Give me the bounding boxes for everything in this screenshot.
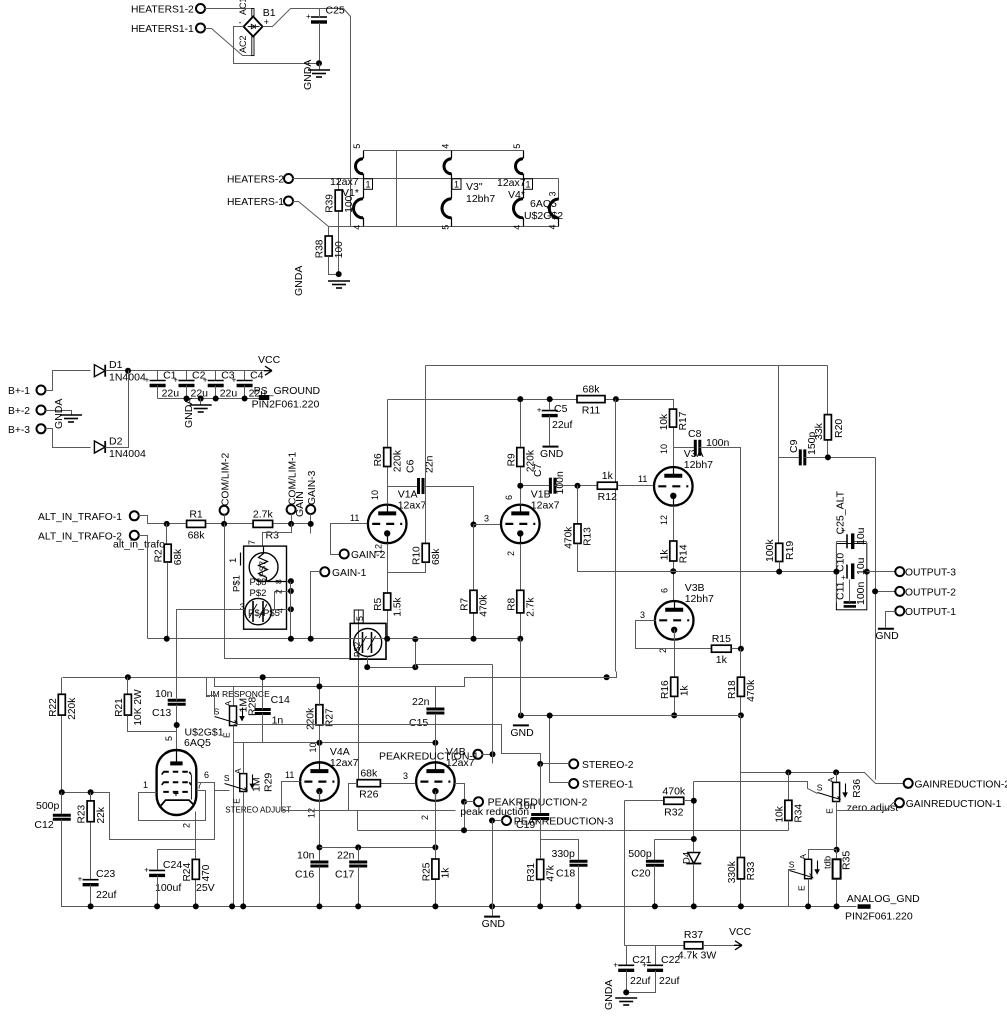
svg-text:22n: 22n (412, 696, 430, 708)
wire grid return line (234, 725, 541, 764)
wire C14 top (262, 678, 264, 710)
wire plate rail 742 (234, 742, 436, 744)
svg-text:E: E (232, 798, 242, 804)
label C13 10n (152, 688, 173, 719)
wire C7 to R12 (555, 485, 598, 487)
ground GNDA (heater resistors) (328, 281, 350, 288)
svg-text:R13: R13 (583, 527, 594, 546)
wire top feedback line (426, 365, 828, 367)
wire OUTPUT-1 to GND (886, 612, 896, 628)
heater filament 6AQ5 (548, 191, 559, 229)
junction R33 gnd (738, 903, 744, 909)
triode V4B 12ax7 (416, 746, 475, 801)
ground GND (output) (875, 629, 899, 643)
svg-text:6: 6 (660, 588, 670, 593)
svg-text:68k: 68k (188, 529, 206, 541)
pin label 2 V3B (658, 648, 668, 653)
junction R16 gnd rail (671, 712, 677, 718)
svg-text:ANALOG_GND: ANALOG_GND (847, 893, 920, 905)
label 12ax7 V4* (497, 177, 526, 201)
wire P2 stub (465, 801, 475, 803)
wire P1 stub (482, 754, 493, 756)
wire PS ground bus (158, 398, 260, 400)
svg-text:4: 4 (441, 144, 451, 149)
junction 6AQ5 plate node (174, 722, 180, 728)
svg-text:C15: C15 (409, 717, 428, 729)
wire C17 bottom (358, 867, 360, 907)
svg-text:C17: C17 (335, 869, 354, 881)
wire bridge plus to C25 top (263, 9, 351, 227)
resistor R15 (712, 633, 732, 666)
svg-text:AC1: AC1 (238, 0, 248, 15)
pin label 10 V1A (370, 490, 380, 500)
svg-text:alt_in_trafo: alt_in_trafo (113, 539, 165, 551)
wire V4A plate lead (319, 743, 321, 763)
svg-text:10u: 10u (855, 527, 867, 545)
pin label 2 6AQ5 (182, 823, 192, 828)
svg-text:C14: C14 (271, 694, 290, 706)
svg-text:C12: C12 (34, 819, 53, 831)
label C5 22uf (552, 403, 573, 431)
wire C13 bottom to 6AQ5 plate (176, 705, 178, 751)
pin label 12 V1A (374, 544, 384, 554)
wire 6AQ5 cathode (195, 812, 197, 860)
terminal GAINREDUCTION-2 (904, 779, 1007, 791)
resistor R14 (659, 541, 689, 602)
wire heater top rail (364, 150, 524, 152)
svg-text:12ax7: 12ax7 (398, 499, 427, 511)
svg-text:+: + (642, 960, 647, 969)
label 12ax7 V1* (330, 176, 359, 199)
wire input bus (139, 516, 311, 524)
svg-text:10: 10 (308, 742, 318, 752)
resistor R12 (597, 470, 617, 503)
resistor R9 (506, 400, 536, 505)
svg-text:+: + (841, 573, 846, 582)
resistor R20 (813, 415, 845, 458)
terminal B+-3 (8, 424, 46, 436)
wire STEREO-2 feed (541, 763, 570, 765)
wire C21 top (626, 946, 628, 966)
pin label 6 V3B (660, 588, 670, 593)
wire R32 right (684, 800, 694, 802)
resistor R21 (114, 678, 144, 726)
svg-text:10n: 10n (155, 688, 173, 700)
net label alt_in_trafo (113, 539, 165, 551)
wire C4 bottom lead (244, 386, 246, 399)
heater filament V4* (512, 144, 533, 230)
terminal HEATERS1-1 (131, 24, 205, 36)
svg-text:1k: 1k (716, 654, 728, 666)
svg-text:E: E (222, 732, 232, 738)
pin label 6 6AQ5 (204, 770, 209, 780)
wire COM/LIM-2 long line (225, 524, 493, 668)
terminal GAIN-2 (340, 550, 386, 562)
svg-text:68k: 68k (360, 768, 378, 780)
svg-text:10n: 10n (297, 849, 315, 861)
ground GND (C5) (540, 447, 564, 461)
terminal PEAKREDUCTION-3 (502, 816, 511, 825)
wire P3 column (492, 821, 494, 907)
junction R8 bottom (517, 636, 523, 642)
junction R2 top (164, 521, 170, 527)
junction C20 gnd (652, 903, 658, 909)
junction R27 bottom (316, 740, 322, 746)
wire mid gnd rail (521, 715, 741, 717)
svg-text:GND: GND (510, 727, 534, 739)
wire R15 to C8 net (732, 648, 741, 650)
wire VCC feed line (625, 945, 685, 947)
wire R28 E down to gnd (233, 726, 235, 907)
wire V1A plate tap (388, 486, 419, 488)
wire C20 top (654, 840, 656, 862)
wire C8 to V3B grid net (700, 448, 741, 649)
capacitor C9 (800, 449, 805, 465)
junction GAIN-3 (308, 521, 314, 527)
junction node D1-D2 (125, 368, 131, 374)
svg-text:500p: 500p (36, 800, 60, 812)
label GNDA (B+ input) (53, 399, 65, 429)
svg-text:C11: C11 (835, 581, 847, 600)
junction R27 top (316, 683, 322, 689)
junction R21 top (125, 674, 131, 680)
svg-text:+: + (306, 12, 311, 21)
ground GND (bottom mid) (482, 917, 506, 931)
capacitor C24 (144, 865, 165, 875)
ground GND (mid) (510, 725, 534, 739)
junction R24 gnd (193, 903, 199, 909)
wire B+-3 to D2 (46, 429, 91, 448)
junction mid gnd sym (489, 903, 495, 909)
capacitor C17 (349, 862, 367, 866)
junction opto2 rail (412, 664, 418, 670)
pin label 1 6AQ5 (143, 780, 148, 790)
capacitor C21 (613, 960, 634, 970)
svg-text:GAIN: GAIN (294, 491, 306, 517)
wire zero adjust net (694, 782, 818, 794)
wire feedback vertical (425, 366, 427, 544)
junction C5 rail (547, 396, 553, 402)
pin label 11 V1A (350, 513, 359, 523)
svg-text:PS7: PS7 (258, 561, 268, 577)
svg-text:GAIN-1: GAIN-1 (332, 568, 367, 579)
wire STEREO-1 feed (550, 716, 570, 783)
svg-text:PIN2F061.220: PIN2F061.220 (845, 910, 913, 922)
wire cathode link line (320, 847, 436, 849)
wire HEATERS1-2 to bridge AC1 (205, 8, 253, 10)
potentiometer R28 LIM RESPONCE (214, 700, 245, 738)
capacitor C23 (78, 875, 99, 885)
wire alt cap right (866, 542, 868, 603)
pin label 3 V3B (640, 610, 645, 620)
svg-text:2: 2 (182, 823, 192, 828)
pin label 12 V3A (659, 515, 669, 525)
wire cathode bottom rail (148, 638, 521, 640)
wire opto pin2 inner (274, 592, 276, 610)
label 6AQ5 U$2G$2 (524, 198, 563, 222)
capacitor C5 (537, 406, 558, 416)
wire R35 pot S (789, 870, 796, 907)
wire heater rail jumper (396, 151, 398, 227)
wire R29 top (243, 743, 245, 774)
wire C4 top lead (244, 371, 246, 381)
pin label 3 V4B (403, 771, 408, 781)
wire V3B cathode to R16 (674, 630, 676, 678)
svg-text:1: 1 (228, 558, 239, 563)
svg-text:4.7k 3W: 4.7k 3W (678, 950, 717, 962)
svg-text:100n: 100n (554, 471, 566, 495)
svg-text:R24: R24 (182, 863, 193, 882)
label C22 22uf (659, 954, 680, 987)
junction STEREO-2 node (537, 761, 543, 767)
svg-text:PS2: PS2 (353, 641, 362, 657)
resistor R23 (77, 793, 107, 880)
wire R27 top (319, 687, 321, 705)
label C7 100n (532, 463, 566, 494)
wire C1 bottom lead (157, 386, 159, 399)
junction R9 rail (517, 396, 523, 402)
svg-text:A: A (223, 700, 233, 706)
svg-text:22uf: 22uf (659, 975, 680, 987)
label pin2 (274, 589, 284, 594)
junction P1 (490, 751, 496, 757)
junction R35 pot gnd (805, 903, 811, 909)
svg-text:A: A (233, 768, 243, 774)
wire R13 bottom to output line (578, 544, 616, 572)
label C9 150p (788, 431, 818, 455)
svg-text:C13: C13 (152, 707, 171, 719)
wire R29 wiper (215, 790, 230, 792)
svg-text:10k: 10k (659, 413, 670, 430)
wire GNDA node to ground (319, 64, 321, 71)
svg-text:tdb: tdb (823, 856, 834, 869)
svg-text:E: E (825, 808, 835, 814)
net label zero adjust (847, 802, 898, 814)
svg-text:GNDA: GNDA (603, 980, 615, 1010)
svg-text:+: + (841, 526, 846, 535)
svg-text:R38: R38 (315, 239, 326, 258)
wire C3 bottom lead (215, 386, 217, 399)
capacitor C20 (646, 861, 664, 865)
svg-text:PEAKREDUCTION-1: PEAKREDUCTION-1 (379, 751, 479, 763)
resistor R34 (774, 773, 804, 823)
svg-text:GAIN-2: GAIN-2 (351, 550, 386, 561)
capacitor C6 (419, 478, 424, 494)
svg-text:PIN2F061.220: PIN2F061.220 (252, 399, 320, 411)
svg-text:P$2: P$2 (250, 588, 267, 599)
svg-text:AC2: AC2 (238, 35, 248, 53)
svg-text:+: + (537, 406, 542, 415)
wire ALT2 down (139, 536, 148, 639)
junction R35 node (834, 847, 840, 853)
pin label 12 V4A (307, 808, 317, 818)
terminal B+-1 (8, 386, 46, 398)
svg-text:2: 2 (506, 551, 516, 556)
terminal OUTPUT-2 (895, 587, 956, 599)
pin label 5 6AQ5 (164, 736, 174, 741)
junction pin4 (288, 606, 294, 612)
svg-text:HEATERS-2: HEATERS-2 (227, 175, 284, 186)
wire C14 bottom (262, 714, 264, 743)
junction B+ lower (604, 674, 610, 680)
svg-text:5: 5 (164, 736, 174, 741)
svg-text:150p: 150p (806, 431, 818, 455)
resistor R3 2.7k (253, 520, 273, 527)
wire opto2 tie to rail (415, 640, 417, 668)
junction output takeoff (670, 568, 676, 574)
wire rail to mid gnd (520, 639, 522, 716)
resistor R13 (564, 486, 594, 549)
svg-text:A: A (826, 777, 836, 783)
svg-text:22uf: 22uf (630, 975, 651, 987)
svg-text:470k: 470k (479, 594, 490, 617)
wire GAINREDUCTION-1 wire (837, 803, 896, 811)
junction C18 gnd (576, 903, 582, 909)
wire sidechain B+ feed (606, 677, 608, 679)
svg-text:B+-1: B+-1 (8, 386, 30, 397)
svg-text:12: 12 (307, 808, 317, 818)
svg-text:6: 6 (204, 770, 209, 780)
label PEAKREDUCTION-2 (488, 797, 588, 809)
label C3 (220, 370, 238, 400)
junction D4 gnd (691, 903, 697, 909)
junction pin8 (288, 578, 294, 584)
pin label 2 V1B (506, 551, 516, 556)
label C16 10n (295, 849, 315, 880)
label pin4 (276, 608, 286, 613)
svg-text:ALT_IN_TRAFO-2: ALT_IN_TRAFO-2 (38, 531, 122, 542)
svg-text:U$2G$2: U$2G$2 (524, 210, 563, 222)
diode D1 1N4004 (94, 359, 146, 384)
wire B+-1 to D1 (46, 371, 91, 391)
svg-text:R1: R1 (189, 508, 203, 520)
svg-text:C7: C7 (532, 463, 544, 477)
svg-text:C20: C20 (631, 868, 650, 880)
resistor R2 (154, 544, 184, 565)
capacitor C4 (232, 376, 253, 386)
svg-text:zero adjust: zero adjust (847, 802, 898, 814)
svg-text:C18: C18 (556, 868, 575, 880)
wire D1 to VCC rail (106, 370, 265, 372)
wire V4A grid loop (282, 782, 456, 811)
pin label 10 V3A (659, 444, 669, 454)
junction V1B grid (471, 522, 477, 528)
wire V4B right stub (455, 784, 465, 802)
label C12 500p (34, 800, 59, 831)
wire output HF feedback drop (875, 458, 877, 780)
resistor R35 (823, 850, 853, 907)
svg-text:100: 100 (334, 241, 345, 258)
wire R19 column (778, 366, 780, 544)
svg-text:E: E (797, 885, 807, 891)
svg-text:22u: 22u (162, 388, 180, 400)
svg-text:R2: R2 (154, 549, 165, 562)
wire 6AQ5 pin1-pin7 loop (139, 791, 206, 821)
resistor R38 (315, 227, 345, 259)
svg-text:100n: 100n (855, 581, 867, 605)
svg-text:R31: R31 (526, 863, 537, 882)
wire C24 bottom (157, 876, 159, 907)
capacitor C3 (203, 376, 224, 386)
svg-text:STEREO-2: STEREO-2 (582, 760, 634, 771)
junction STEREO-1 tap (547, 713, 553, 719)
wire R2 bottom (166, 524, 168, 545)
wire D2 to D1 junction (106, 371, 129, 448)
svg-text:3: 3 (548, 191, 558, 196)
net label peak reduction (460, 806, 529, 818)
wire C18 branch (541, 840, 579, 862)
junction R18 gnd rail (738, 712, 744, 718)
svg-text:3: 3 (640, 610, 645, 620)
svg-text:4: 4 (548, 224, 558, 229)
terminal GAIN-1 (320, 567, 366, 579)
svg-text:5: 5 (352, 144, 362, 149)
terminal STEREO-1 (569, 779, 634, 791)
label LIM RESPONCE (206, 689, 271, 699)
resistor R7 (460, 525, 490, 639)
wire feedback down right (827, 366, 829, 415)
svg-text:R29: R29 (263, 773, 275, 792)
label C17 22n (335, 849, 355, 880)
junction OUTPUT-2 tap (872, 588, 878, 594)
svg-text:OUTPUT-3: OUTPUT-3 (905, 568, 956, 579)
wire grid V1A from GAIN-2 (331, 524, 368, 555)
label PEAKREDUCTION-3 (514, 816, 614, 828)
junction C16 gnd (316, 903, 322, 909)
wire R3 tap to opto pin7 (263, 524, 292, 547)
svg-text:+: + (144, 865, 149, 874)
svg-text:C23: C23 (96, 868, 115, 880)
capacitor C22 (642, 960, 663, 970)
label R36 (852, 779, 863, 798)
wire C21 bottom (626, 971, 628, 993)
wire opto pin2 (275, 591, 291, 593)
svg-text:HEATERS1-2: HEATERS1-2 (131, 5, 194, 16)
svg-text:1.5k: 1.5k (392, 596, 403, 616)
junction R25 link (432, 844, 438, 850)
junction R31 gnd (537, 903, 543, 909)
svg-text:220k: 220k (392, 449, 403, 472)
junction pin2 (288, 588, 294, 594)
opto coupler P$1 box (244, 546, 287, 629)
terminal PEAKREDUCTION-2 (474, 797, 483, 806)
capacitor C25 (306, 12, 327, 22)
resistor R8 (506, 544, 536, 639)
svg-text:GNDA: GNDA (183, 398, 195, 428)
label pin1 P$1 (228, 553, 243, 593)
svg-text:C5: C5 (554, 403, 568, 415)
svg-text:+: + (613, 960, 618, 969)
svg-text:1k: 1k (441, 867, 452, 879)
svg-text:1M: 1M (251, 777, 263, 792)
svg-text:4: 4 (352, 225, 362, 230)
wire gnd rail drop to R36 net (740, 716, 742, 773)
svg-text:220k: 220k (305, 707, 316, 730)
terminal COM/LIM-2 (220, 453, 232, 515)
label C4 (249, 370, 267, 400)
wire GAIN-1 down (311, 572, 321, 639)
svg-text:6AQ5: 6AQ5 (184, 737, 211, 749)
label R29 1M (251, 773, 275, 792)
svg-text:470k: 470k (564, 526, 575, 549)
svg-text:+: + (203, 376, 208, 385)
capacitor C16 (310, 862, 328, 866)
diode D4 zener (682, 852, 702, 907)
svg-text:R9: R9 (506, 453, 517, 466)
wire C2 bottom lead (186, 386, 188, 399)
wire B+ drop to lower section (615, 400, 617, 672)
svg-text:10K 2W: 10K 2W (133, 689, 144, 726)
